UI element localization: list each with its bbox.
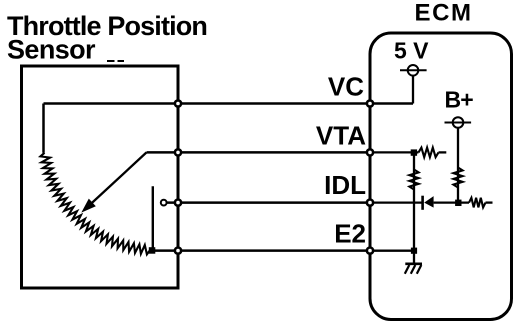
junction ring VC sensor — [175, 100, 181, 106]
svg-text:VTA: VTA — [316, 121, 366, 151]
svg-text:E2: E2 — [334, 219, 366, 249]
junction ring IDL ECM — [367, 200, 373, 206]
junction blob pot end — [149, 247, 156, 254]
junction ring VTA sensor — [175, 149, 181, 155]
ECM box — [370, 33, 512, 320]
wiper arrowhead — [81, 199, 96, 213]
sensor box — [22, 66, 179, 288]
wire VC — [44, 102, 414, 105]
ground symbol — [405, 264, 422, 274]
wire R3 tail — [439, 151, 447, 153]
junction ring VTA ECM — [367, 149, 373, 155]
junction ring E2 ECM — [367, 248, 373, 254]
wiper arm — [88, 152, 147, 206]
resistor R2 on B+ branch — [453, 168, 462, 188]
svg-text:ECM: ECM — [415, 0, 473, 27]
wire E2 to ground — [413, 251, 415, 264]
svg-text:Sensor: Sensor — [7, 35, 96, 65]
svg-text:VC: VC — [328, 72, 364, 102]
junction dot E2 — [411, 248, 417, 254]
wire IDL — [167, 201, 370, 204]
wire VTA inside ECM — [370, 151, 419, 153]
wire R4 tail — [486, 201, 493, 203]
IDL contact arm — [152, 186, 154, 250]
wire VTA — [147, 151, 371, 154]
wire E2 inside ECM — [370, 250, 414, 252]
wire 5V to VC — [412, 76, 414, 104]
wire VTA-IDL vertical branch — [413, 152, 415, 250]
junction dot VTA — [411, 149, 417, 155]
diode D1 cathode bar — [421, 196, 424, 210]
junction ring VC ECM — [367, 100, 373, 106]
wire IDL inside ECM — [370, 201, 422, 203]
potentiometer track — [40, 153, 150, 255]
svg-text:B+: B+ — [445, 87, 474, 113]
diode D1 — [424, 196, 433, 208]
junction ring E2 sensor — [175, 248, 181, 254]
wire diode to R4 — [434, 201, 469, 203]
wire B+ branch down — [457, 128, 459, 203]
wire sensor left drop to pot — [42, 104, 45, 153]
title Throttle Position Sensor — [7, 11, 207, 65]
svg-text:IDL: IDL — [324, 170, 366, 200]
resistor R4 on IDL — [469, 198, 486, 208]
wire E2 — [150, 249, 370, 252]
svg-text:5 V: 5 V — [394, 38, 429, 64]
5V terminal circle — [400, 65, 427, 76]
resistor R1 between VTA and IDL — [409, 170, 418, 190]
B+ terminal circle — [445, 117, 472, 128]
IDL contact circle — [161, 200, 167, 206]
scan dash on box top — [107, 60, 115, 62]
junction dot B+/IDL — [455, 200, 461, 206]
resistor R3 on VTA — [419, 148, 439, 158]
junction ring IDL sensor — [175, 200, 181, 206]
